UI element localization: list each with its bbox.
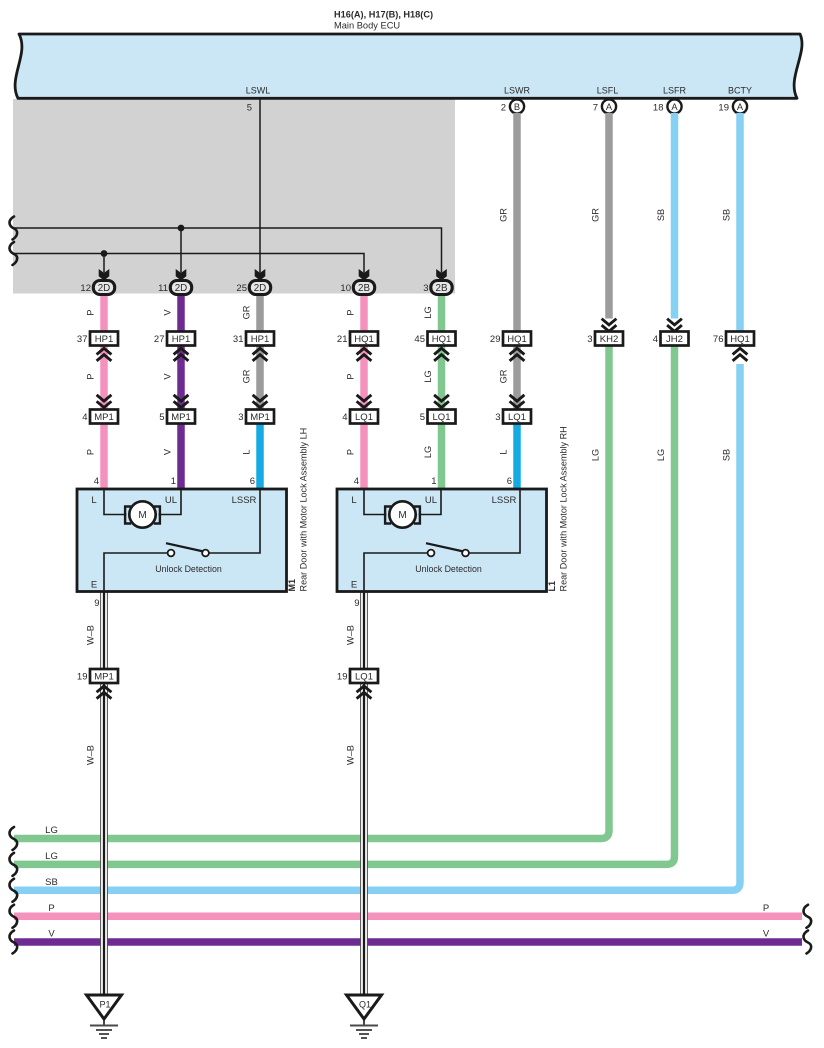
svg-text:27: 27 bbox=[154, 334, 165, 345]
svg-text:29: 29 bbox=[490, 334, 501, 345]
svg-text:V: V bbox=[163, 448, 173, 455]
svg-text:LG: LG bbox=[656, 449, 666, 461]
svg-text:P: P bbox=[346, 309, 356, 315]
svg-text:2D: 2D bbox=[98, 283, 111, 294]
svg-text:L: L bbox=[351, 495, 356, 506]
svg-text:37: 37 bbox=[77, 334, 88, 345]
svg-text:P: P bbox=[86, 309, 96, 315]
svg-text:MP1: MP1 bbox=[94, 672, 114, 683]
svg-text:SB: SB bbox=[722, 209, 732, 221]
svg-text:V: V bbox=[163, 373, 173, 380]
svg-text:L: L bbox=[242, 449, 252, 454]
svg-text:4: 4 bbox=[82, 412, 87, 423]
svg-text:HP1: HP1 bbox=[95, 334, 113, 345]
svg-text:45: 45 bbox=[414, 334, 425, 345]
svg-text:2B: 2B bbox=[436, 283, 448, 294]
svg-text:3: 3 bbox=[238, 412, 243, 423]
svg-text:Main Body ECU: Main Body ECU bbox=[334, 21, 400, 31]
svg-text:6: 6 bbox=[507, 476, 512, 487]
svg-text:LSSR: LSSR bbox=[232, 495, 257, 506]
svg-text:GR: GR bbox=[499, 208, 509, 222]
svg-text:LG: LG bbox=[423, 370, 433, 382]
svg-text:W–B: W–B bbox=[86, 745, 96, 765]
svg-text:MP1: MP1 bbox=[171, 412, 191, 423]
svg-text:19: 19 bbox=[337, 672, 348, 683]
svg-text:3: 3 bbox=[423, 283, 428, 294]
svg-text:MP1: MP1 bbox=[94, 412, 114, 423]
svg-text:9: 9 bbox=[94, 598, 99, 609]
svg-text:4: 4 bbox=[653, 334, 658, 345]
svg-text:LG: LG bbox=[423, 306, 433, 318]
svg-text:3: 3 bbox=[495, 412, 500, 423]
svg-text:A: A bbox=[606, 102, 613, 112]
svg-text:L: L bbox=[91, 495, 96, 506]
svg-text:3: 3 bbox=[587, 334, 592, 345]
svg-text:LG: LG bbox=[423, 446, 433, 458]
svg-text:W–B: W–B bbox=[86, 625, 96, 645]
svg-text:Unlock Detection: Unlock Detection bbox=[155, 564, 222, 574]
svg-text:M1: M1 bbox=[287, 579, 297, 592]
svg-text:P: P bbox=[346, 449, 356, 455]
svg-text:LSWL: LSWL bbox=[246, 86, 271, 96]
svg-text:LQ1: LQ1 bbox=[355, 412, 373, 423]
svg-text:11: 11 bbox=[158, 283, 168, 294]
svg-text:JH2: JH2 bbox=[666, 334, 683, 345]
svg-text:LSFR: LSFR bbox=[663, 86, 687, 96]
svg-text:M: M bbox=[398, 510, 406, 521]
svg-text:W–B: W–B bbox=[346, 745, 356, 765]
svg-text:19: 19 bbox=[77, 672, 88, 683]
svg-text:L1: L1 bbox=[547, 581, 557, 592]
svg-text:L: L bbox=[499, 449, 509, 454]
svg-text:V: V bbox=[48, 929, 55, 940]
svg-text:7: 7 bbox=[593, 103, 598, 114]
svg-text:76: 76 bbox=[713, 334, 724, 345]
svg-text:LQ1: LQ1 bbox=[433, 412, 451, 423]
svg-text:4: 4 bbox=[94, 476, 99, 487]
svg-text:P: P bbox=[86, 373, 96, 379]
svg-text:E: E bbox=[351, 580, 357, 591]
svg-text:LQ1: LQ1 bbox=[355, 672, 373, 683]
svg-text:1: 1 bbox=[171, 476, 176, 487]
svg-text:Rear Door with Motor Lock Asse: Rear Door with Motor Lock Assembly LH bbox=[299, 428, 309, 592]
svg-text:HQ1: HQ1 bbox=[432, 334, 452, 345]
svg-text:4: 4 bbox=[342, 412, 347, 423]
svg-text:31: 31 bbox=[233, 334, 244, 345]
svg-text:LG: LG bbox=[45, 851, 58, 862]
svg-text:P: P bbox=[763, 903, 769, 914]
svg-text:18: 18 bbox=[653, 103, 664, 114]
svg-text:21: 21 bbox=[337, 334, 348, 345]
svg-text:LQ1: LQ1 bbox=[508, 412, 526, 423]
svg-text:25: 25 bbox=[236, 283, 247, 294]
svg-text:LSWR: LSWR bbox=[504, 86, 531, 96]
svg-text:SB: SB bbox=[45, 877, 58, 888]
svg-text:Rear Door with Motor Lock Asse: Rear Door with Motor Lock Assembly RH bbox=[559, 426, 569, 591]
svg-text:2D: 2D bbox=[254, 283, 267, 294]
svg-text:HQ1: HQ1 bbox=[507, 334, 527, 345]
svg-text:GR: GR bbox=[242, 305, 252, 319]
svg-text:2: 2 bbox=[501, 103, 506, 114]
svg-text:5: 5 bbox=[159, 412, 164, 423]
svg-text:5: 5 bbox=[247, 103, 252, 114]
svg-text:KH2: KH2 bbox=[600, 334, 618, 345]
svg-text:Unlock Detection: Unlock Detection bbox=[415, 564, 482, 574]
svg-text:MP1: MP1 bbox=[250, 412, 270, 423]
svg-text:GR: GR bbox=[499, 369, 509, 383]
svg-text:UL: UL bbox=[425, 495, 437, 506]
svg-text:6: 6 bbox=[250, 476, 255, 487]
svg-text:A: A bbox=[671, 102, 678, 112]
svg-text:5: 5 bbox=[420, 412, 425, 423]
svg-text:GR: GR bbox=[591, 208, 601, 222]
svg-text:LG: LG bbox=[45, 825, 58, 836]
svg-text:10: 10 bbox=[340, 283, 351, 294]
svg-text:LSSR: LSSR bbox=[492, 495, 517, 506]
svg-text:HP1: HP1 bbox=[251, 334, 269, 345]
svg-text:H16(A), H17(B), H18(C): H16(A), H17(B), H18(C) bbox=[334, 10, 433, 20]
svg-text:HP1: HP1 bbox=[172, 334, 190, 345]
svg-text:W–B: W–B bbox=[346, 625, 356, 645]
svg-text:GR: GR bbox=[242, 369, 252, 383]
svg-text:HQ1: HQ1 bbox=[730, 334, 750, 345]
svg-text:A: A bbox=[737, 102, 744, 112]
svg-text:2B: 2B bbox=[358, 283, 370, 294]
svg-text:9: 9 bbox=[354, 598, 359, 609]
svg-text:V: V bbox=[163, 309, 173, 316]
svg-text:12: 12 bbox=[80, 283, 91, 294]
svg-text:LG: LG bbox=[591, 449, 601, 461]
svg-text:M: M bbox=[138, 510, 146, 521]
svg-text:SB: SB bbox=[656, 209, 666, 221]
svg-text:P: P bbox=[346, 373, 356, 379]
svg-text:2D: 2D bbox=[175, 283, 188, 294]
svg-text:Q1: Q1 bbox=[359, 1000, 371, 1010]
svg-text:SB: SB bbox=[722, 449, 732, 461]
svg-text:19: 19 bbox=[718, 103, 729, 114]
svg-text:LSFL: LSFL bbox=[597, 86, 619, 96]
svg-text:HQ1: HQ1 bbox=[354, 334, 374, 345]
svg-text:P: P bbox=[48, 903, 54, 914]
svg-text:BCTY: BCTY bbox=[728, 86, 752, 96]
svg-text:UL: UL bbox=[165, 495, 177, 506]
svg-text:E: E bbox=[91, 580, 97, 591]
svg-text:P1: P1 bbox=[99, 1000, 110, 1010]
svg-text:1: 1 bbox=[431, 476, 436, 487]
svg-text:B: B bbox=[514, 102, 520, 112]
svg-text:V: V bbox=[763, 929, 770, 940]
svg-text:P: P bbox=[86, 449, 96, 455]
svg-text:4: 4 bbox=[354, 476, 359, 487]
